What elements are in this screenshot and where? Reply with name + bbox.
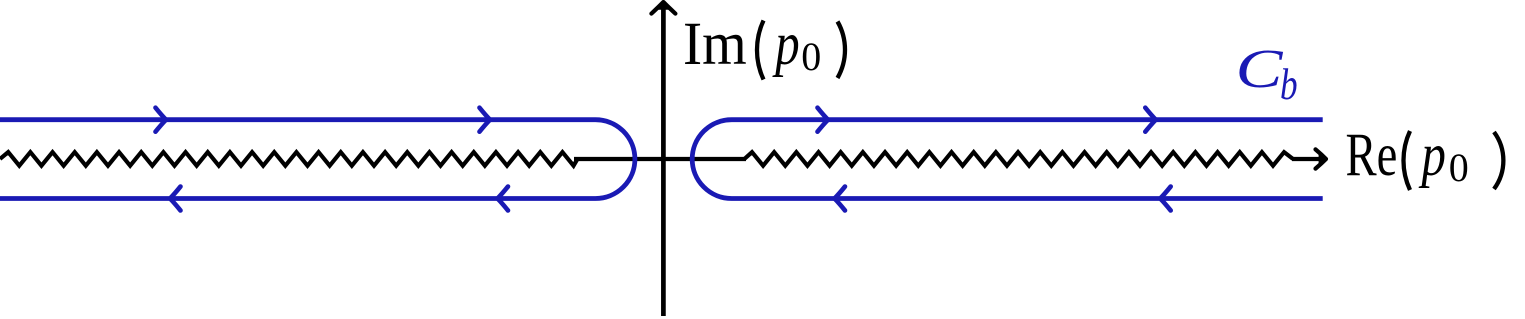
svg-text:p: p — [1418, 121, 1446, 188]
svg-text:0: 0 — [801, 34, 821, 79]
svg-text:b: b — [1280, 59, 1298, 109]
svg-text:C: C — [1236, 38, 1284, 99]
svg-text:Re: Re — [1346, 121, 1398, 188]
svg-text:0: 0 — [1449, 145, 1469, 190]
svg-text:p: p — [772, 10, 800, 77]
svg-text:Im: Im — [683, 9, 747, 77]
